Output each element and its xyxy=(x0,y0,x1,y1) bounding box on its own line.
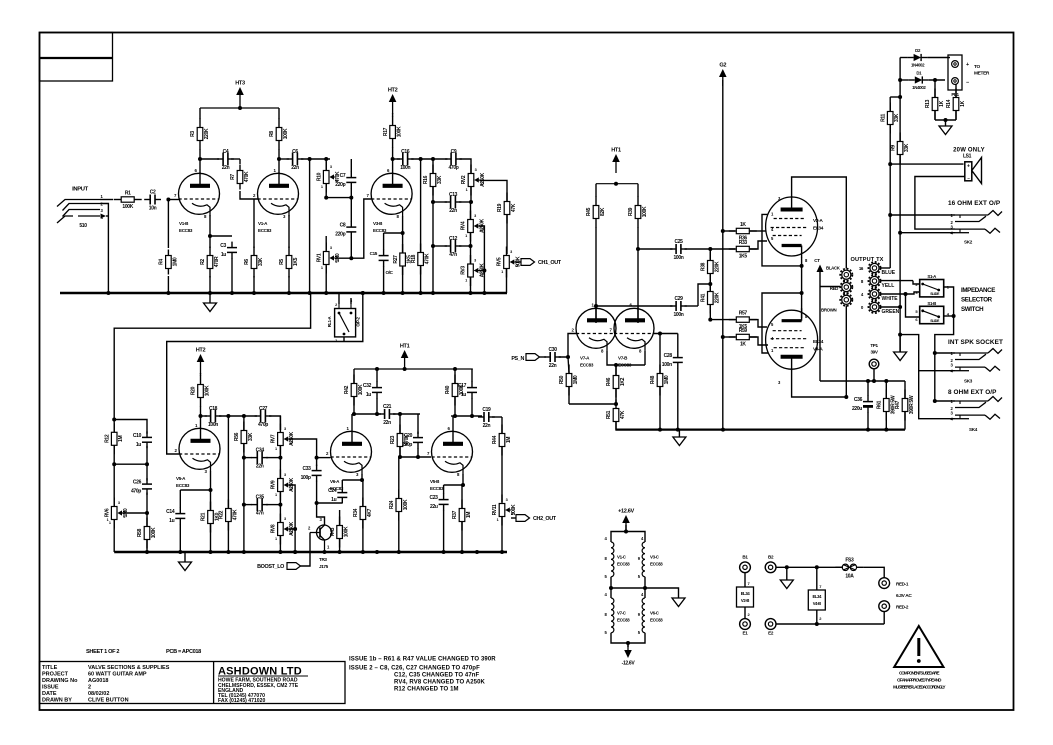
capacitor C17 xyxy=(455,369,482,418)
svg-text:SHEET 1 OF 2: SHEET 1 OF 2 xyxy=(86,649,119,655)
svg-text:TR3: TR3 xyxy=(319,557,327,562)
svg-text:ECC83: ECC83 xyxy=(179,228,193,233)
wire C9 to RV2 xyxy=(460,159,472,173)
svg-text:R38: R38 xyxy=(701,262,707,271)
svg-text:R61: R61 xyxy=(877,400,883,409)
svg-text:22n: 22n xyxy=(483,423,491,429)
svg-text:CH1_OUT: CH1_OUT xyxy=(538,260,562,266)
svg-text:1u: 1u xyxy=(136,442,141,448)
resistor R23 xyxy=(390,414,410,457)
wire R8 to C6 xyxy=(279,158,289,160)
wire V4-A plate to rail xyxy=(792,370,849,400)
svg-text:33K: 33K xyxy=(248,432,254,441)
resistor R14 xyxy=(946,85,966,121)
triode V6-A xyxy=(326,426,372,491)
svg-text:2: 2 xyxy=(335,260,337,264)
wire R50/R46 bottoms xyxy=(569,402,618,406)
svg-text:BLACK: BLACK xyxy=(826,266,841,271)
wire V1-B plate lead xyxy=(199,159,201,174)
svg-text:1: 1 xyxy=(465,234,467,238)
ground symbol CH1 xyxy=(204,293,217,312)
svg-text:22u: 22u xyxy=(430,504,438,510)
wire to SK2 sleeve xyxy=(900,232,955,234)
label int spk socket xyxy=(948,339,1003,346)
wire rail to C16 xyxy=(393,158,400,160)
resistor R46 xyxy=(606,365,626,404)
svg-text:S1-B: S1-B xyxy=(927,301,936,306)
svg-text:1: 1 xyxy=(465,279,467,283)
wire V1-A cathode xyxy=(288,215,290,248)
triode V5-A xyxy=(174,423,220,488)
pentode V4-A EL34 xyxy=(766,308,824,385)
svg-text:HT2: HT2 xyxy=(196,348,206,354)
capacitor C2 xyxy=(144,190,161,212)
svg-text:3: 3 xyxy=(118,501,120,505)
svg-text:1: 1 xyxy=(501,270,503,274)
capacitor C21 xyxy=(354,404,420,426)
node screen bus xyxy=(708,247,712,251)
resistor R48 xyxy=(650,334,670,430)
svg-text:C26: C26 xyxy=(133,480,142,486)
capacitor C23 xyxy=(429,485,448,552)
svg-text:3: 3 xyxy=(330,165,332,169)
svg-text:1: 1 xyxy=(275,447,277,451)
svg-text:510: 510 xyxy=(79,223,87,229)
svg-text:8 OHM EXT O/P: 8 OHM EXT O/P xyxy=(948,389,997,396)
svg-text:SLIDE: SLIDE xyxy=(930,319,940,323)
svg-text:C21: C21 xyxy=(383,404,392,410)
svg-text:C16: C16 xyxy=(401,149,410,155)
svg-text:BOOST_LO: BOOST_LO xyxy=(257,564,284,570)
OT secondary terminal 4 xyxy=(861,288,898,302)
label 6.3V AC xyxy=(896,593,912,599)
svg-text:1: 1 xyxy=(275,493,277,497)
connector PS_N xyxy=(511,354,546,362)
triode V3-B xyxy=(367,168,413,233)
svg-text:HT2: HT2 xyxy=(388,88,398,94)
svg-text:R19: R19 xyxy=(497,203,503,212)
title block fields xyxy=(42,665,170,704)
resistor R3 xyxy=(190,108,210,159)
svg-text:ECC83: ECC83 xyxy=(617,618,630,623)
svg-text:470K: 470K xyxy=(425,253,431,264)
resistor R37 xyxy=(452,485,472,552)
CH1 ground rail xyxy=(60,291,507,295)
wire feed to diodes xyxy=(898,58,902,100)
svg-text:TITLE: TITLE xyxy=(42,665,58,671)
svg-text:100K: 100K xyxy=(397,126,403,137)
svg-text:INT SPK SOCKET: INT SPK SOCKET xyxy=(948,339,1003,346)
svg-text:1u: 1u xyxy=(331,497,336,503)
svg-text:R8: R8 xyxy=(269,131,275,137)
svg-text:V6-C: V6-C xyxy=(650,611,660,616)
svg-text:R22: R22 xyxy=(219,510,225,519)
svg-text:V2-A: V2-A xyxy=(813,218,823,224)
svg-text:C36: C36 xyxy=(854,397,863,403)
ground symbol mains xyxy=(780,567,793,588)
wire G2 vertical xyxy=(721,80,725,430)
wire WHITE to S1 xyxy=(880,292,920,317)
svg-text:V7-C: V7-C xyxy=(617,611,627,616)
svg-text:470K: 470K xyxy=(244,171,250,182)
wire heater mid to ground xyxy=(645,588,679,596)
wire C30 to V7-A grid xyxy=(559,334,576,360)
wire RV1 wiper to V3-B grid xyxy=(335,199,371,260)
svg-text:ISSUE 2 – C8, C26, C27 CHANGE: ISSUE 2 – C8, C26, C27 CHANGED TO 470pF xyxy=(349,666,480,672)
svg-text:R40: R40 xyxy=(445,385,451,394)
svg-text:V7-B: V7-B xyxy=(618,355,628,360)
potentiometer R10 xyxy=(316,159,341,198)
svg-text:EL34: EL34 xyxy=(813,339,824,345)
OT secondary terminal 16 xyxy=(859,262,896,276)
resistor R20 xyxy=(191,373,211,416)
wire V1-B cathode xyxy=(209,215,211,248)
wire V6-A plate lead xyxy=(352,414,354,431)
svg-text:E2: E2 xyxy=(768,631,774,636)
svg-text:220p: 220p xyxy=(402,442,412,448)
resistor R17 xyxy=(383,113,403,159)
test point TP1 xyxy=(869,343,879,383)
svg-text:3: 3 xyxy=(474,259,476,263)
HT2 supply arrow xyxy=(388,88,398,115)
capacitor C4 xyxy=(217,149,234,171)
resistor R8 xyxy=(269,108,289,159)
HT1 supply arrow xyxy=(400,344,410,370)
svg-text:R12 CHANGED TO 1M: R12 CHANGED TO 1M xyxy=(394,687,459,693)
resistor R38 xyxy=(701,249,721,284)
potentiometer RV5 xyxy=(497,247,522,294)
diode D1 xyxy=(900,71,945,91)
wire HT3 rail xyxy=(200,106,279,110)
wire RV7 wiper to V6-A grid xyxy=(289,439,331,466)
svg-text:C30: C30 xyxy=(549,347,558,353)
wire S1-A common xyxy=(944,287,954,316)
svg-text:C19: C19 xyxy=(482,407,491,413)
capacitor C24 xyxy=(328,480,347,503)
svg-text:EL34: EL34 xyxy=(812,594,822,599)
svg-text:1M0: 1M0 xyxy=(573,375,579,384)
svg-text:22n: 22n xyxy=(383,420,391,426)
capacitor C15 xyxy=(370,233,394,293)
svg-text:B2: B2 xyxy=(768,555,774,560)
svg-text:1: 1 xyxy=(321,185,323,189)
svg-text:3: 3 xyxy=(284,517,286,521)
svg-text:82K: 82K xyxy=(600,207,606,216)
terminal E1 xyxy=(740,619,751,636)
resistor R51 xyxy=(606,400,626,431)
capacitor C32 xyxy=(363,369,382,416)
svg-text:V5-B: V5-B xyxy=(430,479,440,484)
svg-text:PROJECT: PROJECT xyxy=(42,672,69,678)
svg-text:EL34: EL34 xyxy=(741,591,751,596)
wire C18 to C27 xyxy=(219,414,257,418)
svg-text:C23: C23 xyxy=(429,495,438,501)
svg-text:ECC83: ECC83 xyxy=(617,562,630,567)
svg-text:SK3: SK3 xyxy=(964,379,973,384)
wire V4-A suppressor to cathode xyxy=(762,291,804,353)
svg-text:HT3: HT3 xyxy=(235,81,245,87)
G2 supply arrow xyxy=(719,63,727,87)
label impedance selector xyxy=(961,287,995,313)
wire HT rail xyxy=(820,379,905,383)
svg-text:2: 2 xyxy=(511,512,513,516)
svg-text:R6: R6 xyxy=(244,259,250,265)
capacitor C36 xyxy=(852,381,873,430)
svg-text:PCB = APC018: PCB = APC018 xyxy=(166,649,201,655)
wire cathode to C3 xyxy=(208,234,232,238)
svg-text:3: 3 xyxy=(475,168,477,172)
capacitor C34 xyxy=(242,448,281,470)
svg-text:RED-1: RED-1 xyxy=(896,582,909,587)
svg-text:C34: C34 xyxy=(256,448,265,454)
svg-text:G2: G2 xyxy=(719,63,726,69)
svg-text:R33: R33 xyxy=(739,240,748,246)
svg-text:33K: 33K xyxy=(258,257,264,266)
valve heater V4-B xyxy=(808,567,825,624)
svg-text:INPUT: INPUT xyxy=(72,187,88,193)
svg-text:1: 1 xyxy=(321,266,323,270)
svg-text:R10: R10 xyxy=(316,172,322,181)
OT primary terminal BROWN xyxy=(840,294,852,306)
svg-text:C20: C20 xyxy=(404,433,413,439)
resistor R5 xyxy=(279,247,299,294)
wire R13/R14 join xyxy=(935,118,956,122)
svg-text:R51: R51 xyxy=(606,410,612,419)
svg-text:V4-A: V4-A xyxy=(813,347,823,353)
svg-text:R3: R3 xyxy=(190,131,196,137)
svg-text:2: 2 xyxy=(88,685,91,691)
svg-text:100p: 100p xyxy=(301,475,311,481)
potentiometer RV11 xyxy=(492,495,517,553)
svg-text:R21: R21 xyxy=(201,512,207,521)
svg-text:R56: R56 xyxy=(234,432,240,441)
svg-text:2: 2 xyxy=(480,182,482,186)
wire jack sleeve to ground rail xyxy=(100,204,108,294)
switch S1-A xyxy=(915,274,949,297)
potentiometer RV1 xyxy=(316,236,341,293)
svg-text:33K: 33K xyxy=(437,175,443,184)
wire grid row V5-B xyxy=(398,455,431,459)
capacitor C10 xyxy=(112,420,152,467)
terminal RED-2 xyxy=(879,601,909,612)
svg-text:1M: 1M xyxy=(506,437,512,443)
svg-text:HT1: HT1 xyxy=(611,148,621,154)
svg-text:RV4: RV4 xyxy=(461,221,467,230)
svg-text:2: 2 xyxy=(480,273,482,277)
sheet label xyxy=(86,649,201,655)
wire 0 tap to bus xyxy=(880,231,902,337)
svg-text:R57: R57 xyxy=(739,311,748,317)
svg-text:2: 2 xyxy=(290,441,292,445)
svg-text:C29: C29 xyxy=(674,296,683,302)
svg-text:V5-A: V5-A xyxy=(176,476,186,481)
svg-text:2: 2 xyxy=(335,303,337,307)
svg-text:RED-2: RED-2 xyxy=(896,605,909,610)
resistor R6 xyxy=(244,199,264,293)
svg-text:C8: C8 xyxy=(340,223,346,229)
node R8/C6 xyxy=(277,157,281,161)
pentode V2-A EL34 xyxy=(766,196,824,263)
ground symbol CH2 xyxy=(179,552,192,571)
wire speaker bottom xyxy=(915,177,965,230)
svg-text:1N4002: 1N4002 xyxy=(911,63,925,68)
svg-text:1: 1 xyxy=(107,518,109,522)
svg-text:47n: 47n xyxy=(256,511,264,517)
svg-text:220p: 220p xyxy=(335,182,345,188)
svg-text:100K: 100K xyxy=(403,499,409,510)
top-left revision box xyxy=(40,33,113,82)
svg-text:V6-A: V6-A xyxy=(330,479,340,484)
company block xyxy=(218,666,308,705)
svg-text:22n: 22n xyxy=(291,165,299,171)
svg-text:SK4: SK4 xyxy=(969,427,978,432)
label 16 ohm ext xyxy=(948,200,1001,207)
wire V3-B cathode bus xyxy=(384,216,405,235)
potentiometer RV3 xyxy=(461,246,486,293)
svg-text:2: 2 xyxy=(290,531,292,535)
svg-text:OUTPUT TX: OUTPUT TX xyxy=(850,257,883,263)
svg-text:1K2: 1K2 xyxy=(620,377,626,386)
svg-text:C17: C17 xyxy=(458,383,467,389)
svg-text:R48: R48 xyxy=(650,375,656,384)
svg-text:R12: R12 xyxy=(104,434,110,443)
svg-text:R2: R2 xyxy=(200,259,206,265)
capacitor C6 xyxy=(287,149,304,171)
svg-text:100n: 100n xyxy=(674,312,684,318)
svg-text:E1: E1 xyxy=(743,631,749,636)
svg-text:47K: 47K xyxy=(511,203,517,212)
title block box xyxy=(40,662,346,704)
connector BOOST_LO xyxy=(257,533,310,571)
svg-text:HT1: HT1 xyxy=(400,344,410,350)
issue notes xyxy=(349,657,496,693)
svg-text:22n: 22n xyxy=(449,208,457,214)
svg-text:R42: R42 xyxy=(344,385,350,394)
capacitor C26 xyxy=(131,464,152,515)
svg-text:1K: 1K xyxy=(939,100,945,106)
svg-text:ECC83: ECC83 xyxy=(373,228,387,233)
svg-text:470p: 470p xyxy=(131,489,141,495)
svg-text:1u: 1u xyxy=(366,392,371,398)
svg-text:V1-C: V1-C xyxy=(617,555,627,560)
svg-text:R43: R43 xyxy=(330,527,336,536)
svg-text:RV3: RV3 xyxy=(461,266,467,275)
svg-text:16 OHM EXT O/P: 16 OHM EXT O/P xyxy=(948,200,1001,207)
svg-text:470K: 470K xyxy=(232,509,238,520)
CT arrow BLACK xyxy=(814,258,841,381)
svg-text:DRAWN BY: DRAWN BY xyxy=(42,698,72,704)
resistor R33 xyxy=(710,240,767,260)
svg-text:R39: R39 xyxy=(628,207,634,216)
svg-text:100K: 100K xyxy=(344,526,350,537)
OT primary terminal RED xyxy=(840,281,852,293)
wire C6 to bus xyxy=(301,157,330,161)
capacitor C30 xyxy=(544,347,561,369)
wire B to V5-A grid xyxy=(167,342,344,455)
svg-text:C12, C35 CHANGED TO 47nF: C12, C35 CHANGED TO 47nF xyxy=(394,673,480,679)
triode V1-A xyxy=(253,168,299,233)
svg-text:33K: 33K xyxy=(904,143,910,152)
CH2 ground rail xyxy=(114,550,507,554)
svg-text:FS3: FS3 xyxy=(845,557,854,563)
svg-text:CH2_OUT: CH2_OUT xyxy=(533,516,557,522)
svg-text:R41: R41 xyxy=(701,293,707,302)
wire EL34 cathodes join xyxy=(801,258,803,319)
svg-text:1K5: 1K5 xyxy=(739,254,748,260)
wire RV6 wiper xyxy=(123,512,148,514)
svg-text:1u: 1u xyxy=(169,518,174,524)
wire YELL to S1-A xyxy=(880,281,920,284)
svg-text:RV1: RV1 xyxy=(316,253,322,262)
wire SK4 lower xyxy=(919,371,955,419)
svg-text:10A: 10A xyxy=(845,573,854,579)
label 8 ohm ext xyxy=(948,389,997,396)
resistor R27 xyxy=(393,233,413,293)
svg-text:RV4, RV8 CHANGED TO A250K: RV4, RV8 CHANGED TO A250K xyxy=(394,680,486,686)
svg-text:+: + xyxy=(967,164,970,170)
wire SK3 to SK4 xyxy=(933,353,955,403)
heater network V1/V3/V7/V6 xyxy=(605,525,664,645)
svg-text:22n: 22n xyxy=(549,363,557,369)
resistor R19 xyxy=(497,193,517,255)
svg-text:−: − xyxy=(966,80,969,86)
capacitor C8 xyxy=(335,198,356,259)
svg-text:C18: C18 xyxy=(209,406,218,412)
svg-text:FAX (01245) 471020: FAX (01245) 471020 xyxy=(218,698,265,704)
svg-text:TO: TO xyxy=(974,64,980,70)
svg-text:DRAWING No: DRAWING No xyxy=(42,678,78,684)
svg-text:BROWN: BROWN xyxy=(821,308,837,313)
wire V6-A cathode bus xyxy=(342,474,364,482)
capacitor C3 xyxy=(220,242,237,293)
svg-text:RV6: RV6 xyxy=(104,508,110,517)
wire cathodes join xyxy=(607,350,645,367)
terminal B1 xyxy=(740,555,751,573)
node V6-A plate xyxy=(352,412,356,416)
node R17 plate xyxy=(391,157,395,161)
svg-text:LS1: LS1 xyxy=(963,154,972,160)
svg-text:R45: R45 xyxy=(586,207,592,216)
valve heater V2-B xyxy=(737,573,754,619)
resistor R44 xyxy=(492,417,512,502)
wire V5-A cathode bus xyxy=(180,471,212,492)
svg-text:C6: C6 xyxy=(292,149,298,155)
connector CH1_OUT xyxy=(515,259,562,266)
svg-text:100K: 100K xyxy=(283,128,289,139)
capacitor C25 xyxy=(636,239,710,261)
connector PL1 to meter xyxy=(948,55,990,97)
svg-text:V3-C: V3-C xyxy=(650,555,660,560)
capacitor C18 xyxy=(205,406,222,428)
HT2 supply arrow (CH2) xyxy=(196,348,206,375)
svg-text:R9: R9 xyxy=(890,145,896,151)
svg-text:1: 1 xyxy=(466,188,468,192)
wire R7 to V1-A grid xyxy=(240,191,258,199)
resistor R60 xyxy=(877,379,897,430)
wire fuse to RED-1 xyxy=(863,567,884,577)
node V5-B plate xyxy=(445,369,465,418)
resistor R7 xyxy=(230,165,250,190)
wire relay pin1 to rail xyxy=(344,291,365,342)
svg-text:MUST BE REPLACED ACCORDINGLY: MUST BE REPLACED ACCORDINGLY xyxy=(893,685,945,690)
wire V1-A plate lead xyxy=(278,159,280,174)
svg-text:C33: C33 xyxy=(302,466,311,472)
capacitor C9 xyxy=(445,149,462,171)
potentiometer RV9 xyxy=(271,458,296,505)
potentiometer RV4 xyxy=(461,202,486,248)
wire V2-A suppressor to cathode xyxy=(762,214,804,268)
svg-text:3: 3 xyxy=(284,473,286,477)
